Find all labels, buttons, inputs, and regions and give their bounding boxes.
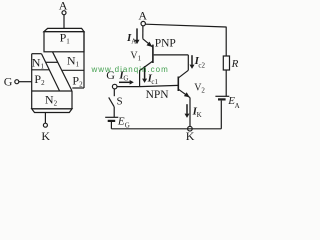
wire E_G to bottom rail — [110, 122, 112, 129]
svg-text:R: R — [231, 58, 239, 70]
N2 3D bottom face — [32, 109, 72, 113]
wire R to top rail — [225, 27, 227, 56]
right column vertical edge — [83, 32, 85, 88]
current arrow I_c1 — [144, 66, 146, 79]
battery E_G long plate — [105, 116, 118, 118]
svg-text:K: K — [41, 129, 50, 143]
N2 right edge — [71, 91, 73, 109]
P2 right bottom edge — [72, 87, 84, 89]
V1 base wire to V2 collector corner — [154, 54, 189, 56]
svg-text:P1: P1 — [60, 31, 71, 46]
terminal A (structure) circle — [62, 11, 66, 15]
current arrow I_c2 — [191, 55, 193, 65]
svg-text:www.dianqin.com: www.dianqin.com — [91, 65, 169, 74]
V1 collector wire — [140, 61, 153, 87]
current arrow I_K — [186, 104, 188, 114]
wire A down to V1 emitter — [142, 26, 144, 39]
switch S blade — [109, 97, 115, 106]
svg-text:c1: c1 — [151, 78, 158, 86]
battery E_A short plate — [218, 98, 226, 100]
svg-text:E: E — [117, 116, 125, 128]
N2 top edge — [32, 90, 72, 92]
diagonal A split line — [42, 54, 60, 91]
node A circle — [141, 21, 145, 25]
svg-text:PNP: PNP — [155, 37, 176, 49]
diagonal B split line — [53, 52, 73, 91]
gate wire G to base junction — [117, 86, 140, 88]
svg-text:G: G — [4, 75, 13, 89]
svg-text:P2: P2 — [72, 74, 83, 89]
right branch lower wire — [220, 101, 222, 129]
band junction segment — [46, 61, 58, 63]
N2 bottom front edge — [32, 108, 72, 110]
K terminal (structure) circle — [43, 123, 47, 127]
wire N2 to K — [44, 113, 46, 124]
current arrow I_G — [119, 81, 130, 83]
wire A to R branch (top) — [145, 24, 226, 27]
resistor R box — [223, 56, 229, 70]
svg-text:V2: V2 — [194, 83, 205, 95]
node G circle — [112, 84, 117, 89]
svg-text:N2: N2 — [45, 93, 58, 108]
battery E_G short plate — [108, 120, 116, 122]
P1 box 3D top face — [44, 28, 84, 31]
svg-text:K: K — [197, 111, 202, 119]
svg-text:A: A — [138, 9, 147, 23]
svg-text:P2: P2 — [34, 72, 45, 87]
current arrow I_A — [136, 28, 138, 40]
V2 collector diagonal — [179, 70, 189, 78]
op V1 base bar — [152, 45, 154, 63]
svg-text:K: K — [186, 129, 195, 143]
V2 collector vertical — [187, 55, 189, 70]
switch wire from G node — [113, 89, 115, 96]
V2 emitter wire with arrow — [179, 89, 191, 97]
svg-text:NPN: NPN — [146, 89, 170, 101]
P1 box front face — [44, 32, 84, 52]
N1 left box top edge — [32, 53, 42, 55]
N1/P2 left boundary — [32, 69, 50, 71]
bottom rail wire — [111, 128, 221, 130]
svg-text:N1: N1 — [67, 54, 80, 69]
wire switch to E_G — [113, 107, 115, 118]
G wire to P2 — [19, 81, 32, 83]
N1/P2 right boundary — [62, 69, 84, 71]
V2 emitter vertical to K — [189, 98, 191, 127]
svg-text:S: S — [117, 95, 123, 107]
op V2 base bar — [177, 77, 179, 92]
svg-text:G: G — [125, 121, 130, 129]
svg-text:A: A — [131, 37, 136, 45]
node K circle — [188, 126, 193, 131]
svg-text:G: G — [123, 75, 128, 83]
wire E_A up to R — [225, 70, 227, 96]
svg-text:V1: V1 — [130, 50, 141, 62]
left column vertical edge — [31, 54, 33, 109]
svg-text:N1: N1 — [32, 56, 45, 71]
G terminal circle — [15, 80, 19, 84]
battery E_A long plate — [215, 95, 229, 97]
V2 base wire — [140, 85, 179, 86]
V1 emitter wire with arrow — [143, 39, 153, 47]
svg-text:A: A — [235, 102, 240, 110]
svg-text:c2: c2 — [198, 61, 205, 69]
wire A to P1 — [63, 15, 65, 29]
